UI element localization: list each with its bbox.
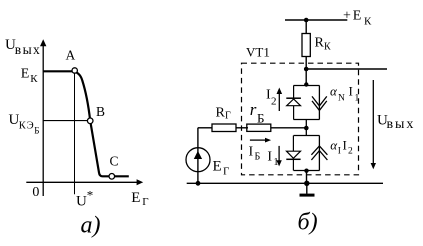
- svg-text:E: E: [131, 190, 140, 206]
- svg-text:I: I: [249, 144, 254, 159]
- svg-text:*: *: [87, 187, 94, 202]
- svg-text:Б: Б: [34, 126, 39, 136]
- svg-text:I: I: [343, 138, 347, 153]
- svg-text:N: N: [338, 94, 345, 104]
- junction dot power: [304, 18, 309, 23]
- emitter cell top wire: [294, 135, 320, 137]
- I2 arrow (up): [278, 94, 280, 112]
- svg-text:вых: вых: [15, 42, 41, 57]
- ground symbol: [306, 183, 308, 194]
- dependent source alphaN*I1 (down chevrons): [312, 86, 327, 120]
- svg-text:Г: Г: [223, 166, 229, 178]
- point A marker: [72, 68, 77, 73]
- wire Rk to collector node: [305, 57, 307, 86]
- I1 arrow (down): [278, 146, 280, 161]
- Y axis arrowhead: [40, 39, 46, 46]
- svg-text:К: К: [324, 42, 331, 53]
- wire collector cell to base node: [305, 120, 307, 136]
- svg-text:E: E: [353, 8, 362, 23]
- svg-text:2: 2: [348, 146, 353, 156]
- svg-text:U: U: [76, 193, 87, 209]
- svg-text:I: I: [338, 147, 341, 157]
- svg-text:E: E: [213, 159, 222, 175]
- Y axis: [42, 44, 44, 196]
- ground rail: [187, 182, 383, 184]
- source EG arrow: [194, 151, 202, 159]
- svg-text:б): б): [298, 210, 318, 236]
- wire source to RG: [198, 127, 212, 129]
- wire emitter to ground: [306, 171, 308, 184]
- wire +Ek to Rk: [305, 20, 307, 34]
- dependent source alphaI*I2 (up chevrons): [311, 136, 327, 171]
- svg-text:α: α: [330, 84, 338, 99]
- svg-text:К: К: [364, 16, 372, 28]
- I_B arrow (right): [250, 139, 266, 141]
- point B marker: [87, 118, 93, 124]
- svg-text:I: I: [267, 150, 272, 165]
- svg-text:r: r: [250, 100, 257, 119]
- svg-text:вых: вых: [387, 117, 416, 132]
- collector diode VD1: [286, 86, 301, 120]
- emitter cell bottom wire: [294, 170, 320, 172]
- wire RG to rB: [236, 127, 248, 129]
- svg-text:+: +: [343, 8, 351, 23]
- X axis: [26, 181, 138, 183]
- svg-text:0: 0: [32, 185, 39, 200]
- svg-text:Г: Г: [142, 196, 148, 208]
- emitter diode VD2: [286, 136, 300, 171]
- X axis arrowhead: [137, 179, 144, 185]
- svg-text:К: К: [30, 73, 38, 85]
- svg-text:В: В: [96, 104, 105, 119]
- +Ek power wire: [285, 19, 347, 21]
- wire through source to ground: [197, 128, 199, 184]
- svg-text:1: 1: [355, 94, 360, 104]
- ground junction dot: [304, 181, 309, 186]
- collector node dot: [304, 67, 309, 72]
- svg-text:С: С: [110, 154, 119, 169]
- resistor RG: [212, 124, 236, 132]
- svg-text:E: E: [21, 66, 30, 81]
- dot emitter: [304, 169, 308, 173]
- svg-text:а): а): [81, 213, 101, 239]
- svg-text:VT1: VT1: [246, 45, 270, 60]
- svg-text:R: R: [216, 106, 226, 121]
- svg-text:Б: Б: [257, 111, 264, 126]
- base wire rB to node: [271, 127, 307, 129]
- svg-text:R: R: [315, 36, 325, 51]
- collector cell top wire: [294, 85, 320, 87]
- Uout measuring arrow: [372, 80, 374, 164]
- svg-text:КЭ: КЭ: [19, 120, 35, 131]
- svg-text:Б: Б: [255, 152, 261, 163]
- svg-text:А: А: [66, 48, 76, 63]
- transfer curve: [43, 71, 129, 176]
- resistor rB: [247, 124, 271, 131]
- point C marker: [109, 174, 115, 180]
- collector cell bottom wire: [294, 119, 320, 121]
- svg-text:Г: Г: [225, 111, 231, 122]
- U* guide line: [74, 72, 76, 195]
- svg-text:I: I: [349, 84, 353, 99]
- resistor RK: [302, 34, 310, 57]
- U_KEB level line: [43, 120, 90, 122]
- base junction dot: [304, 126, 309, 131]
- collector wire: [306, 68, 387, 70]
- source EG circle: [186, 148, 210, 172]
- ground dot left: [196, 181, 201, 186]
- dot collector cell top: [304, 82, 308, 86]
- VT1 dashed box: [242, 63, 359, 175]
- svg-text:2: 2: [271, 96, 277, 108]
